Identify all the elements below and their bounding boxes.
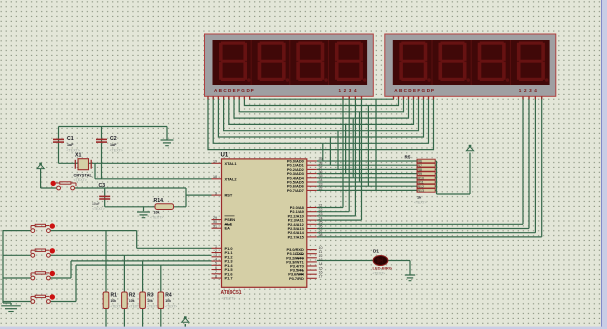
svg-text:C3: C3: [99, 183, 106, 189]
svg-text:DP: DP: [427, 88, 435, 93]
svg-text:R4: R4: [165, 293, 172, 299]
svg-text:<TEXT>: <TEXT>: [373, 272, 386, 276]
svg-text:D1: D1: [373, 249, 379, 254]
svg-text:<TEXT>: <TEXT>: [165, 305, 177, 309]
svg-text:P2.7/A15: P2.7/A15: [288, 234, 305, 239]
svg-text:1234: 1234: [519, 88, 540, 93]
svg-text:19: 19: [213, 160, 217, 164]
svg-text:17: 17: [319, 275, 323, 279]
svg-text:10uF: 10uF: [92, 202, 100, 206]
svg-text:RST: RST: [225, 193, 233, 198]
svg-text:10k: 10k: [147, 299, 153, 303]
svg-text:XTAL2: XTAL2: [225, 176, 238, 181]
svg-text:<TEXT>: <TEXT>: [92, 207, 105, 211]
svg-text:9: 9: [215, 191, 217, 195]
svg-text:EA: EA: [225, 226, 231, 231]
svg-text:10k: 10k: [111, 299, 117, 303]
svg-text:<TEXT>: <TEXT>: [74, 178, 87, 182]
svg-text:P0.7/AD7: P0.7/AD7: [287, 188, 304, 193]
svg-text:CRYSTAL: CRYSTAL: [74, 173, 93, 178]
svg-text:P3.7/RD: P3.7/RD: [289, 276, 304, 281]
svg-text:ABCDEFG: ABCDEFG: [394, 88, 426, 93]
svg-text:10k: 10k: [154, 211, 160, 215]
svg-text:1uF: 1uF: [110, 143, 117, 147]
svg-text:ABCDEFG: ABCDEFG: [214, 88, 246, 93]
svg-text:R2: R2: [129, 293, 136, 299]
svg-text:R14: R14: [154, 198, 164, 204]
svg-text:<TEXT>: <TEXT>: [110, 149, 123, 153]
svg-text:R3: R3: [147, 293, 154, 299]
svg-text:AT89C51: AT89C51: [221, 290, 242, 296]
svg-text:<TEXT>: <TEXT>: [150, 216, 163, 220]
svg-text:8: 8: [215, 274, 217, 278]
svg-text:R5: R5: [405, 155, 411, 160]
svg-text:U1: U1: [221, 153, 229, 159]
svg-text:<TEXT>: <TEXT>: [222, 297, 237, 301]
svg-text:10k: 10k: [165, 299, 171, 303]
svg-text:18: 18: [213, 175, 217, 179]
svg-text:1234: 1234: [339, 88, 360, 93]
svg-text:28: 28: [319, 233, 323, 237]
svg-text:<TEXT>: <TEXT>: [129, 305, 141, 309]
svg-text:LED-BIRG: LED-BIRG: [373, 266, 392, 271]
svg-text:R13: R13: [418, 189, 424, 193]
svg-text:32: 32: [319, 187, 323, 191]
svg-text:C2: C2: [110, 136, 117, 142]
svg-text:C1: C1: [67, 136, 74, 142]
svg-text:31: 31: [213, 224, 217, 228]
svg-text:DP: DP: [247, 88, 255, 93]
svg-text:R1: R1: [111, 293, 118, 299]
svg-text:P1.7: P1.7: [225, 276, 233, 281]
svg-text:<TEXT>: <TEXT>: [414, 201, 427, 205]
svg-text:X1: X1: [75, 153, 81, 159]
svg-text:XTAL1: XTAL1: [225, 161, 238, 166]
svg-text:1uF: 1uF: [67, 143, 74, 147]
svg-text:<TEXT>: <TEXT>: [111, 305, 123, 309]
svg-text:<TEXT>: <TEXT>: [147, 305, 159, 309]
svg-text:10k: 10k: [129, 299, 135, 303]
